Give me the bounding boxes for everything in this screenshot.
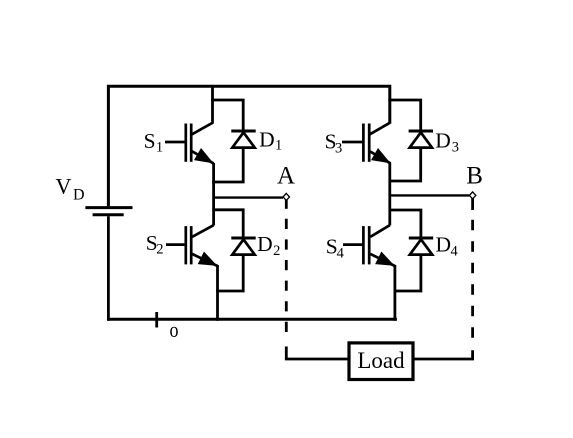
wire: S4 emitter lead to bottom rail	[393, 265, 396, 321]
node o tick on bottom rail	[155, 312, 158, 328]
svg-text:2: 2	[273, 243, 280, 259]
label S1	[144, 129, 164, 156]
svg-text:2: 2	[156, 242, 163, 258]
svg-text:D: D	[436, 233, 452, 257]
svg-text:1: 1	[156, 140, 163, 156]
wire: D1 top branch	[211, 100, 243, 132]
svg-text:A: A	[277, 162, 295, 189]
svg-text:B: B	[466, 163, 483, 190]
diode D3	[409, 131, 433, 148]
svg-text:4: 4	[451, 243, 459, 259]
transistor S4 (IGBT)	[343, 225, 395, 266]
label D4	[436, 233, 459, 260]
svg-text:4: 4	[337, 246, 345, 262]
wire: node B output lead	[390, 194, 470, 196]
diode D1	[231, 131, 255, 148]
node B terminal diamond	[469, 192, 475, 199]
label D2	[257, 232, 280, 259]
svg-text:D: D	[259, 127, 275, 151]
wire: node B dashed connection to load	[471, 220, 474, 341]
wire: S1 collector drop from top rail	[211, 86, 214, 124]
wire: node B dashed stub	[471, 199, 474, 211]
wire: bottom DC bus rail	[107, 318, 397, 321]
wire: node A elbow into load (left load lead)	[286, 347, 348, 360]
diode D2	[231, 238, 255, 255]
wire: node B elbow into load (right load lead)	[414, 350, 472, 359]
svg-text:o: o	[170, 317, 179, 342]
node A terminal diamond	[283, 193, 289, 200]
voltage source V_D (battery)	[85, 208, 132, 215]
wire: phase-leg midpoint vertical (S3 emitter to S4 collector)	[388, 163, 391, 225]
wire: phase-leg midpoint vertical (S1 emitter to S2 collector)	[212, 163, 215, 225]
wire: D4 lower lead and bottom branch to S4 emitter	[394, 254, 421, 292]
transistor S1 (IGBT)	[165, 123, 214, 164]
transistor S3 (IGBT)	[342, 123, 391, 164]
svg-text:3: 3	[452, 140, 459, 156]
wire: D4 top branch	[389, 210, 421, 239]
label D1	[259, 127, 282, 153]
wire: node A output lead	[213, 196, 283, 198]
wire: node A dashed connection to load	[285, 219, 288, 340]
svg-text:S: S	[144, 129, 156, 153]
svg-text:Load: Load	[357, 348, 405, 373]
wire: D3 top branch	[388, 100, 420, 132]
wire: battery negative lead	[107, 216, 110, 321]
wire: top DC bus rail (battery + to both legs, with right-leg collector drop)	[108, 86, 389, 206]
wire: D3 lower lead and bottom branch to S3 emitter	[389, 147, 421, 182]
label S3	[325, 130, 343, 157]
svg-text:V: V	[56, 173, 72, 198]
wire: D2 lower lead and bottom branch to S2 emitter	[216, 254, 243, 292]
wire: node A dashed stub	[285, 200, 288, 209]
diode D4	[409, 238, 433, 255]
svg-text:D: D	[435, 129, 451, 153]
svg-text:3: 3	[335, 141, 342, 157]
label V_D	[56, 173, 85, 203]
wire: D2 top branch	[212, 210, 243, 239]
svg-text:D: D	[73, 186, 85, 203]
label S2	[146, 231, 164, 258]
svg-text:D: D	[257, 232, 273, 256]
wire: S2 emitter lead to bottom rail	[216, 265, 219, 321]
label S4	[326, 235, 345, 262]
load box	[349, 343, 413, 380]
transistor S2 (IGBT)	[166, 225, 218, 266]
label D3	[435, 129, 459, 156]
wire: D1 lower lead and bottom branch to S1 emitter	[212, 147, 243, 183]
svg-text:1: 1	[275, 137, 282, 153]
